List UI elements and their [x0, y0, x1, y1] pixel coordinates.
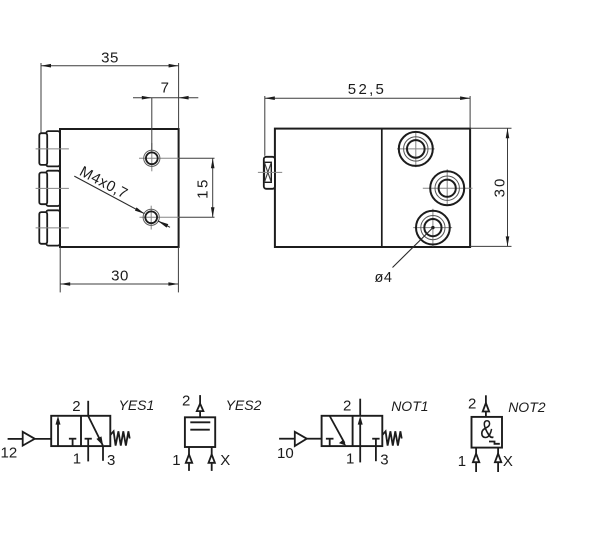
dimension 7 extension line [151, 98, 153, 151]
YES2 port 2 line with check triangle [199, 395, 201, 404]
YES1 pilot line 12 [8, 438, 23, 440]
NOT2 body [472, 417, 503, 448]
connector 3 centerline [36, 227, 69, 229]
YES1 port 2 line [87, 401, 89, 416]
svg-text:YES1: YES1 [119, 397, 155, 413]
diameter 4 leader line [393, 228, 433, 268]
dimension 35 extension lines [40, 63, 42, 133]
svg-text:2: 2 [182, 392, 190, 409]
svg-text:3: 3 [380, 452, 388, 469]
NOT1 port 3 line [375, 446, 377, 461]
lower screw hole centerlines [140, 216, 181, 218]
connector 1 small rect [39, 133, 47, 165]
leader target dot [431, 226, 434, 229]
NOT1 left cell blocked port [326, 438, 334, 440]
svg-text:12: 12 [1, 445, 18, 462]
lower screw hole thread circle [143, 209, 159, 225]
YES1 left cell flow arrow [57, 423, 59, 446]
YES2 body [185, 417, 215, 447]
svg-text:10: 10 [277, 445, 294, 462]
svg-text:1: 1 [346, 451, 354, 468]
block body side view [275, 129, 470, 247]
svg-text:1: 1 [73, 451, 81, 468]
NOT2 negation step mark [489, 442, 500, 444]
svg-text:30: 30 [492, 177, 509, 198]
upper screw hole centerlines [139, 157, 180, 159]
svg-text:1: 1 [458, 453, 466, 470]
connector 3 big rect [46, 210, 60, 245]
side connector centerline [258, 171, 282, 173]
dimension 30 (side) line [507, 128, 509, 246]
dimension 15 extension lines [179, 157, 215, 159]
NOT1 right cell blocked port [372, 438, 379, 440]
connector 2 small rect [39, 173, 47, 205]
svg-text:35: 35 [101, 49, 119, 66]
YES1 return spring [110, 431, 129, 445]
section divider line [381, 129, 383, 247]
NOT1 return spring [382, 431, 401, 445]
NOT1 pilot to body line [307, 438, 322, 440]
M4x0,7 leader far-side arrow [158, 221, 170, 227]
NOT2 port 2 line with check triangle [485, 395, 487, 403]
connector 3 small rect [39, 212, 47, 244]
svg-text:ø4: ø4 [375, 270, 393, 286]
svg-text:15: 15 [195, 177, 212, 199]
svg-text:X: X [503, 453, 513, 470]
NOT1 valve body [322, 416, 383, 446]
dimension 52,5 line [265, 97, 470, 99]
svg-text:52,5: 52,5 [348, 81, 386, 98]
NOT1 port 2 line [359, 399, 361, 416]
port hole middle circles [430, 171, 464, 205]
block body front view [60, 129, 179, 247]
dimension 30 (side) extension lines [470, 127, 511, 129]
port hole top centerlines [397, 148, 435, 150]
svg-text:2: 2 [343, 398, 351, 415]
svg-text:YES2: YES2 [226, 397, 262, 413]
dimension 52,5 extension lines [264, 96, 266, 156]
YES1 right cell blocked port [85, 438, 92, 440]
dimension 15 line [212, 158, 214, 217]
upper screw hole bore circle [146, 152, 158, 164]
dimension 30 extension lines [59, 247, 61, 292]
svg-text:30: 30 [111, 267, 129, 284]
connector 1 big rect [46, 131, 60, 166]
NOT1 body divider [352, 416, 354, 446]
NOT2 port 1 line with check triangle [475, 448, 477, 454]
YES1 left cell blocked port [69, 438, 76, 440]
YES1 port 3 line [102, 446, 104, 461]
connector 2 centerline [36, 187, 69, 189]
YES1 pilot triangle [23, 432, 35, 446]
YES1 valve body [51, 416, 110, 446]
port hole middle centerlines [423, 187, 473, 189]
svg-text:2: 2 [468, 396, 476, 413]
M4x0,7 leader line [74, 176, 144, 214]
NOT1 right cell flow arrow [359, 423, 361, 446]
side connector body [264, 157, 275, 189]
NOT1 port 1 line [359, 446, 361, 462]
upper screw hole thread circle [144, 150, 160, 166]
svg-text:3: 3 [107, 452, 115, 469]
YES1 right cell diagonal flow [88, 416, 103, 445]
svg-text:&: & [480, 414, 494, 444]
connector 1 centerline [36, 148, 69, 150]
YES2 equal lines [190, 421, 210, 423]
YES1 port 1 line [87, 446, 89, 461]
NOT1 left cell diagonal flow [330, 416, 345, 443]
svg-text:X: X [220, 452, 230, 469]
dimension 30 line [60, 283, 178, 285]
NOT1 pilot triangle [295, 432, 307, 446]
port hole bottom circles [416, 211, 450, 245]
connector 2 big rect [46, 171, 60, 206]
YES1 body divider [80, 416, 82, 446]
lower screw hole bore circle [145, 211, 157, 223]
svg-text:NOT1: NOT1 [391, 398, 428, 414]
dimension 7 line [133, 97, 198, 99]
svg-text:2: 2 [72, 398, 80, 415]
NOT1 pilot line 10 [279, 438, 294, 440]
port hole top circles [399, 132, 433, 166]
YES2 port X line with check triangle [211, 447, 213, 455]
svg-text:NOT2: NOT2 [508, 399, 546, 415]
dimension 35 line [41, 65, 179, 67]
svg-text:1: 1 [172, 452, 180, 469]
YES1 pilot to body line [35, 438, 51, 440]
side connector insert with cross [264, 162, 271, 182]
svg-text:7: 7 [161, 80, 170, 97]
port hole bottom centerlines [413, 227, 452, 229]
YES2 port 1 line with check triangle [188, 447, 190, 455]
NOT2 port X line with check triangle [497, 448, 499, 454]
